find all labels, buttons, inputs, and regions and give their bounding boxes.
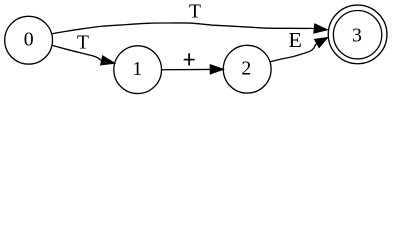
arrowhead 0->1	[101, 56, 115, 65]
arrowhead 0->3	[314, 24, 328, 33]
label + of edge 1->2 (drawn as cross bars)	[184, 59, 195, 61]
transition edge 0->1	[52, 32, 115, 65]
label E of edge 2->3	[288, 28, 302, 51]
svg-text:0: 0	[24, 29, 34, 51]
svg-text:1: 1	[132, 58, 142, 80]
state node 2	[223, 45, 271, 93]
transition edge 1->2	[162, 53, 224, 74]
transition edge 0->3 curved over the top	[52, 1, 328, 34]
state node 1	[114, 46, 162, 94]
arrowhead 2->3	[315, 37, 328, 47]
svg-text:T: T	[189, 1, 201, 23]
finite automaton state diagram	[0, 0, 393, 100]
arrowhead 1->2	[210, 65, 223, 74]
svg-text:3: 3	[352, 24, 362, 46]
state node 0	[5, 16, 53, 64]
accepting state node 3 (double circle)	[328, 5, 387, 64]
transition edge 2->3	[270, 28, 328, 61]
svg-text:T: T	[77, 32, 89, 54]
svg-text:2: 2	[241, 58, 251, 80]
svg-text:E: E	[288, 28, 302, 51]
